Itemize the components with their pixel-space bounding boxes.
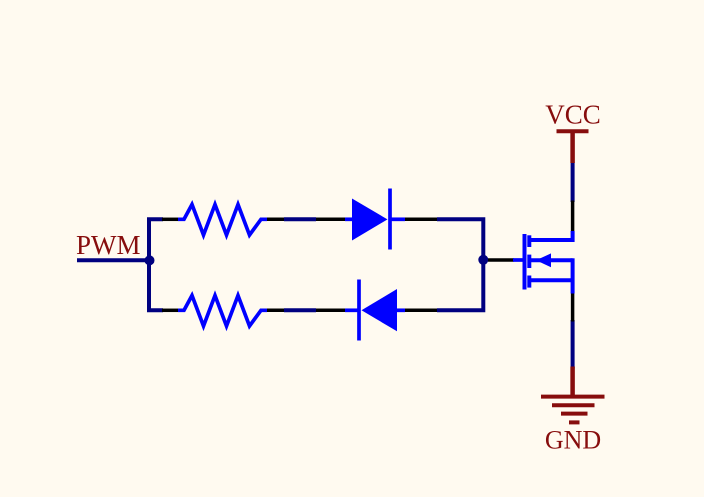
svg-text:VCC: VCC (545, 99, 601, 129)
svg-text:PWM: PWM (76, 230, 141, 260)
svg-text:GND: GND (545, 426, 601, 455)
